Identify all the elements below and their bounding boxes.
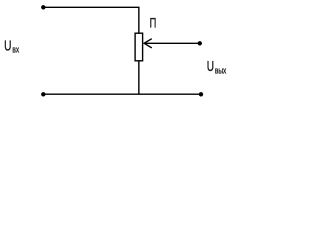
wire: wiper output lead: [144, 42, 200, 44]
wire: top lead from input terminal to potentiometer top: [43, 7, 139, 34]
wire: potentiometer bottom lead: [138, 61, 140, 94]
svg-text:U: U: [207, 58, 214, 74]
svg-text:П: П: [150, 15, 157, 32]
wire: bottom rail: [43, 93, 201, 95]
node: wiper output terminal dot: [198, 41, 202, 45]
node: bottom output terminal dot: [199, 92, 203, 96]
svg-text:U: U: [4, 38, 11, 54]
svg-text:вх: вх: [12, 44, 19, 55]
arrow: wiper arrowhead: [144, 39, 152, 48]
node: bottom input terminal dot: [41, 92, 45, 96]
potentiometer P body: [135, 33, 143, 61]
node: top input terminal dot: [41, 5, 45, 9]
svg-text:вых: вых: [215, 65, 226, 76]
